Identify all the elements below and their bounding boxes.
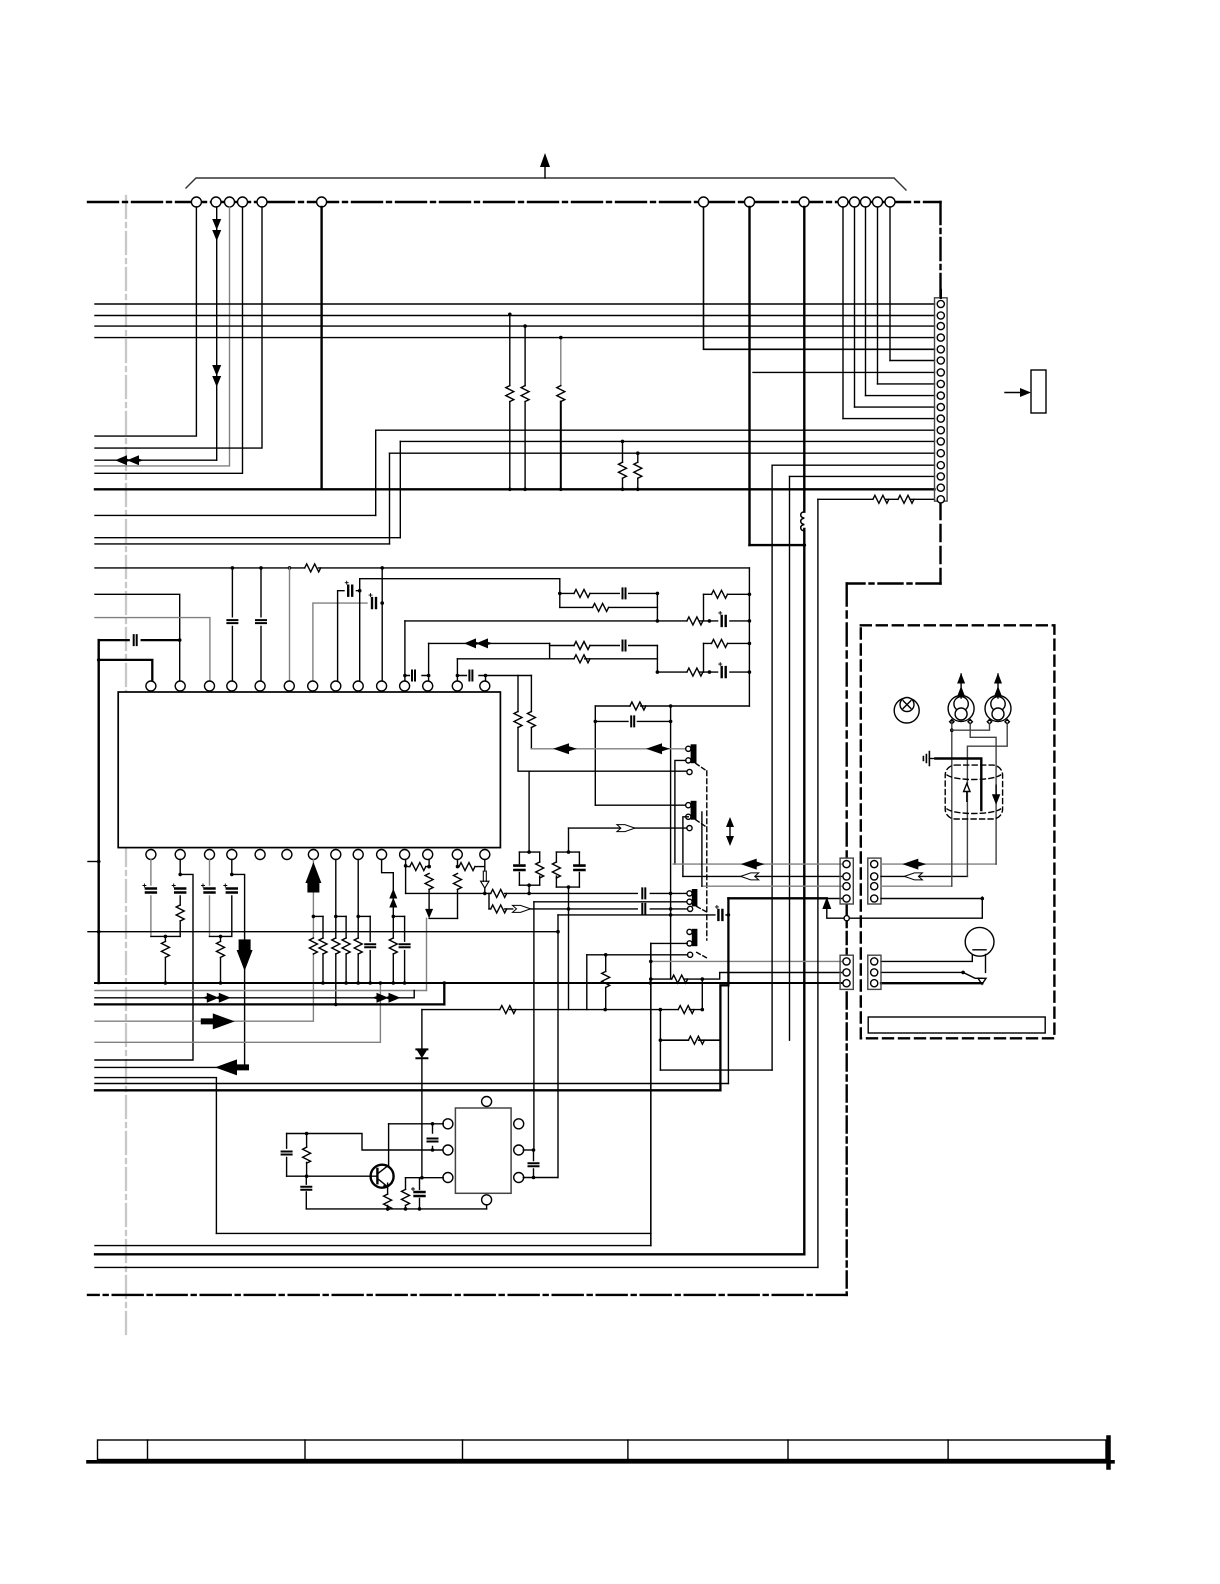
transformer dashed cylinder: [945, 765, 1002, 819]
RC row0 top line y=706 with resistor: [595, 705, 749, 707]
cap row1 top: [623, 588, 626, 598]
junction dot pin2 branch: [178, 873, 182, 877]
filled arrow 2 on 748.8: [646, 743, 670, 754]
filled arrow 1 on 748.8: [553, 743, 577, 754]
wire left-arrow line y=460: [95, 459, 217, 461]
cap row2 top: [623, 641, 626, 651]
U2 top pin: [482, 1097, 492, 1107]
sw1 line with two filled arrows y=748.8: [531, 748, 686, 750]
thick line y=1254.3: [95, 1253, 804, 1255]
riser x=560.8 from bus line4 with resistor: [560, 338, 562, 386]
big chevron arrow left on y=1067.4: [215, 1059, 249, 1075]
RC row2 top line with R and C: [550, 645, 658, 647]
vertical x=702.3: [701, 979, 703, 1010]
pin10 resistor: [392, 916, 394, 983]
parallel cap x=370.2: [369, 916, 371, 983]
resistor row2 top: [574, 642, 590, 650]
dots on 675.5 line: [403, 674, 407, 678]
U2 pin1 wire with corner to collector riser: [389, 1123, 444, 1125]
cap C5t above pin5: [260, 568, 262, 681]
conn B pin4 line: [881, 898, 982, 900]
node circle T6: [317, 197, 327, 207]
wire to connector pin13: [400, 440, 934, 442]
wire y=908.9 with resistor + hollow arrow + cap to sw3 movable: [489, 908, 687, 910]
row1 output line y=620.9: [405, 620, 750, 622]
long vertical x=558 to small IC: [557, 915, 559, 1178]
wire T6 thick down-left: [320, 207, 322, 489]
electrolytic below pin3: [202, 884, 215, 893]
wire pin3 top y=617.6 (gray): [95, 618, 210, 681]
pin14 wire with hollow down arrow: [484, 860, 486, 894]
cap on y=908.9: [642, 904, 645, 914]
hollow arrow on 876.4: [741, 873, 759, 880]
join line y=916.4 pin8: [336, 915, 346, 917]
sw2 line y=805.2: [595, 804, 686, 806]
node circle T7: [699, 197, 709, 207]
dots on x=650.8: [649, 960, 653, 964]
polarized cap on y=672.1: [719, 663, 726, 678]
junction dot bus/thick vertical: [803, 488, 807, 492]
resistor R-b on pin18 wire: [898, 495, 914, 503]
dash-dot below connector: [939, 503, 941, 584]
sw4 movable wire y=954.8: [587, 954, 688, 956]
sw3 contact2 line y=901.8: [534, 901, 687, 903]
resistor on y=979.1: [672, 975, 688, 983]
sw1 movable line y=771.2: [530, 770, 688, 772]
arrow up from bracket: [540, 153, 550, 178]
line y=997.8 with double chevron arrows right: [95, 991, 414, 998]
line y=1070.1: [660, 1069, 772, 1071]
wire to connector pin8: [878, 383, 935, 385]
resistor 2 on y=1009.6: [678, 1006, 694, 1014]
big right arrow on y=1021.2: [201, 1013, 235, 1029]
long vertical x=670.6: [670, 706, 672, 978]
connector CN-C (3pin): [840, 955, 853, 989]
wire y=537.7 left to stub V400: [95, 537, 400, 539]
join line pins1-2 y=936.4: [151, 935, 180, 937]
motor1 t2 wire: [970, 724, 996, 864]
resistor vertical x=531.4: [530, 676, 532, 749]
riser x=605.7 with resistor: [605, 955, 607, 1010]
thick line y=1090.3 to x=720.4: [95, 1089, 720, 1091]
bottom bus of small circuit y=1208.9: [306, 1208, 486, 1210]
jog to small triangle: [963, 972, 982, 978]
conn A pin4 stub: [827, 898, 842, 900]
pin9 chain: [357, 860, 359, 917]
junction dot pin14: [483, 892, 487, 896]
wire to connector pin12: [376, 429, 935, 431]
cap below right pin2: [533, 1150, 535, 1178]
lamp symbol: [894, 698, 919, 724]
resistor wire y=979.1 jog to connector C pin2: [651, 973, 842, 980]
node circle T4: [238, 197, 248, 207]
junction dot: [701, 977, 705, 981]
junction dots row1: [558, 592, 562, 596]
cap between pin1/pin2 lines: [432, 1124, 434, 1150]
wire y=515.4 left to stub V375: [95, 514, 376, 516]
pin8 resistor continuing to thick bus: [335, 916, 337, 1004]
battery right wire: [985, 955, 987, 973]
wire T9 thick down with coil: [803, 207, 805, 1254]
junction dots row0: [669, 704, 673, 708]
pin11 bottom wire down to line: [405, 860, 407, 894]
small IC U2: [455, 1108, 511, 1193]
long vertical x=789.5: [789, 476, 791, 1040]
node circle T5: [257, 197, 267, 207]
pin13 riser to row2 mid line: [456, 659, 458, 681]
wire to connector pin16 from long vertical: [790, 475, 935, 477]
vertical x=750.3 down from 567.9: [748, 568, 750, 706]
wire T7 down to pin5 line: [704, 207, 935, 349]
big down arrow on pin4 branch: [237, 950, 253, 971]
pin3 chain: [209, 860, 211, 937]
conn D pin2 line: [881, 971, 963, 973]
cap line pins11-12 y=675.5: [405, 675, 429, 677]
riser for pin3 line: [701, 812, 703, 886]
resistor below pin2: [176, 905, 184, 921]
up arrowhead at 826.8: [822, 897, 831, 909]
fold line (board boundary, light gray dash-dot): [125, 196, 127, 1338]
filled arrow on 864.1: [741, 859, 765, 870]
bus line 3 to connector pin3: [95, 325, 935, 327]
resistor row1 top: [574, 589, 590, 597]
U2 right pin2 wire to cap chain: [523, 1149, 533, 1151]
wire pin7 top: line y=603.1: [313, 603, 382, 681]
dot at 982.3,898.5: [981, 897, 985, 901]
wire pin2 vertical to pin: [179, 640, 181, 681]
down arrowhead at join: [425, 909, 433, 919]
node circle T10: [838, 197, 848, 207]
row2 output line y=672.1: [657, 671, 749, 673]
junction dots y=672.1: [656, 670, 660, 674]
sw gang dashed link: [706, 771, 708, 940]
node circle T12: [861, 197, 871, 207]
diode D1: [416, 1049, 427, 1058]
junction dot pin7: [312, 915, 316, 919]
resistor below join line: [164, 936, 166, 983]
conn A pin2 line with hollow arrow: [683, 875, 842, 877]
wire T14 down to pin6 line: [889, 207, 891, 361]
pin14 vertical: [485, 676, 487, 682]
U2 bottom pin: [482, 1195, 492, 1205]
pin4 chain: [231, 860, 233, 937]
motor terminals: [950, 720, 1010, 724]
riser x=586.8 down to line 1009.6: [586, 955, 588, 1010]
U2 pin2 wire with step: [287, 1134, 443, 1151]
sw2 contact2 riser x=682.9: [675, 760, 686, 864]
sw2 movable line y=828.1 with hollow arrow: [569, 827, 689, 829]
junction dot pin10 riser: [380, 601, 384, 605]
resistor row1 bottom: [593, 603, 609, 611]
ground symbol: [923, 752, 935, 766]
join line pins3-4: [210, 935, 232, 937]
pin4 branch wire to x=244.6 with big down arrow: [95, 874, 245, 1067]
resistor on y=893.4: [491, 889, 507, 897]
resistor below pin13: [454, 874, 462, 890]
bus line 1 to connector pin1: [95, 303, 935, 305]
RC row1 top line with R and C: [560, 592, 658, 594]
switch SW1: [686, 745, 707, 775]
resistor row0: [630, 702, 646, 710]
label box inside dashed box: [868, 1017, 1045, 1033]
ground bus y=983 across page to connector C: [95, 982, 842, 984]
long vertical x=772.1: [771, 465, 773, 1070]
emitter wire with resistor: [387, 1183, 389, 1209]
small double up arrows on pin10 step: [389, 889, 397, 908]
tank circuit LC2 (R parallel C): [552, 828, 584, 909]
chevron arrows right on y=997.8 (pair 2): [384, 993, 401, 1003]
hollow down arrow on pin14 wire: [481, 871, 489, 888]
resistor row2 bottom: [574, 655, 590, 663]
cap row0: [631, 716, 634, 726]
parallel resistor x=323: [322, 916, 324, 983]
junction dot: [164, 935, 168, 939]
dash-dot jog to x=846.7: [847, 582, 941, 584]
RC row1 bottom line with R: [560, 606, 658, 608]
battery circle: [965, 927, 994, 956]
node circle T14: [885, 197, 895, 207]
feedback resistor row1: [704, 593, 750, 595]
thick wire pin1 top y=659.9: [99, 660, 153, 681]
electrolytic below pin4: [224, 884, 237, 893]
small box right edge long vertical: [650, 943, 652, 1245]
resistor vertical x=518: [518, 676, 530, 772]
pin1 bottom electrolytic chain: [150, 860, 152, 937]
parallel cap x=404.6: [404, 916, 406, 983]
stub vertical x=400.3: [399, 441, 401, 537]
join line y=916.4 pin7: [313, 915, 323, 917]
line y=1267.4: [95, 1266, 818, 1268]
cap C-in on y=640.1: [134, 635, 137, 645]
hollow arrow right on y=908.9: [513, 905, 531, 912]
bus line 4 to connector pin4: [95, 337, 935, 339]
wire T4 down-left: [95, 207, 243, 473]
pin9 resistor: [357, 916, 359, 983]
join line y=916.4 pin9: [358, 915, 370, 917]
junction dot pin8 riser on 1004.4: [334, 1003, 338, 1007]
riser x=622.5 from pin13 line with resistor: [622, 441, 624, 489]
junction dot 749.4,643.4: [748, 642, 752, 646]
polarized cap on y=620.9: [719, 611, 726, 626]
motor M1 symbol: [948, 673, 974, 722]
chevron arrows right on y=997.8 (pair 1): [214, 993, 231, 1003]
bus thick line into connector pin17: [95, 488, 935, 490]
RC row2 left vertical: [549, 643, 551, 658]
line y=1083.5 to x=728.4: [95, 1083, 728, 1085]
U2 pin3 wire: [406, 1177, 444, 1179]
resistor below pin3 wire: [405, 1178, 407, 1209]
join line y=916.4 pin10: [393, 915, 404, 917]
resistor R-a on pin18 wire: [873, 495, 889, 503]
row2 input line y=643.4 with chevron arrow: [429, 642, 550, 644]
diode vertical x=421.9: [421, 1010, 423, 1178]
node circle T8: [745, 197, 755, 207]
node circle T13: [873, 197, 883, 207]
thick line y=1004.4: [95, 1003, 444, 1005]
parallel resistor x=346.1: [345, 916, 347, 983]
resistor on pin7 wire: [309, 938, 317, 954]
sw2 contact2 riser: [683, 817, 688, 877]
pin10 step wire with small up arrow: [382, 860, 394, 917]
resistor below pin12: [425, 874, 433, 890]
connector CN-A (4pin): [840, 858, 853, 904]
resistor 1 on y=1009.6: [500, 1006, 516, 1014]
bus line 2 to connector pin2: [95, 315, 935, 317]
pin11 vertical: [404, 621, 406, 681]
wire cap to pin2 vertical: [100, 639, 180, 641]
small circuit box bottom: [216, 1232, 651, 1234]
wire T8 thick down: [748, 207, 750, 545]
module rect with arrow (right side): [1005, 370, 1046, 413]
hollow arrow right of conn B: [904, 873, 922, 880]
conn A pin1 gray line with filled left arrow: [673, 863, 842, 865]
wire T10 down to pin11 line: [842, 207, 844, 419]
stub y=861.5: [88, 861, 99, 863]
conn D pin3 thick line: [881, 982, 982, 984]
stub vertical x=389.5: [389, 453, 391, 544]
wire T13 down to pin8 line: [877, 207, 879, 384]
wire y=545.1 between thick verticals: [750, 544, 805, 546]
resistor between pins 11-12: [406, 866, 429, 868]
line y=1009.6 with resistors: [422, 1009, 702, 1011]
wire y=893.4 with resistor to sw3 contact1: [406, 892, 688, 894]
wire to connector pin18 with two resistors: [818, 498, 935, 500]
thick riser x=444.3: [443, 983, 445, 1004]
wire to connector pin15 from long vertical: [773, 464, 935, 466]
pin7 long vertical with big up arrow: [95, 860, 313, 1022]
conn B pin2 line with hollow arrow: [881, 875, 967, 877]
resistor on y=672.1: [687, 668, 703, 676]
gray wire y=961.4 to connector C: [651, 960, 842, 962]
pin2 bottom chain: [179, 860, 181, 937]
resistor on y=908.9: [491, 905, 507, 913]
top shield bracket: [186, 178, 906, 190]
connector CN-D (3pin): [868, 955, 881, 989]
riser x=426.5 down to gray line 990.5: [426, 918, 428, 990]
wire T11 down to pin10 line: [854, 207, 856, 407]
conn A pin3 gray line: [702, 885, 842, 887]
wire to connector pin7 from left: [753, 371, 935, 373]
vertical x=595.3 row0 to sw2: [594, 706, 596, 805]
wire pin6 vertical: [289, 568, 291, 681]
riser x=525.1 from bus line3 with resistor: [524, 326, 526, 489]
conn B pin3 gray line: [881, 885, 952, 887]
motor M2 symbol: [985, 673, 1011, 722]
RC row0 cap line y=721.4: [595, 720, 670, 722]
dash-dot boundary right vertical: [846, 584, 848, 858]
resistor on y=620.9: [687, 617, 703, 625]
conn B pin1 line with filled left arrow to motor wire: [881, 863, 996, 865]
dash-dot boundary bottom: [88, 1294, 847, 1296]
left branch resistor: [306, 1134, 308, 1177]
left thick vertical x=98.7: [97, 640, 99, 983]
arrow down double on T2 wire (upper): [212, 219, 221, 241]
junction dot at 179.7,640.1: [178, 638, 182, 642]
filled arrow right of conn B: [902, 859, 926, 870]
dash-dot boundary top: [88, 201, 941, 203]
sw4 contact2 wire from vertical x=650.8: [651, 942, 688, 944]
wire to connector pin10: [855, 406, 935, 408]
vertical x=650.8 sw4 to bottom: [650, 943, 652, 1245]
node circle T1: [191, 197, 201, 207]
pin13 chain: [457, 860, 459, 919]
polarized cap on pin7 line: [369, 594, 376, 609]
line y=1245.6: [95, 1245, 651, 1247]
cap below base wire: [305, 1176, 307, 1209]
line y=1040.2 with resistor thick to x=720.5: [660, 1039, 720, 1041]
big up arrow on pin7 wire: [305, 862, 321, 883]
transistor Q1: [371, 1165, 394, 1188]
wire to connector pin14: [390, 452, 935, 454]
U2 bottom pin stub: [486, 1205, 488, 1209]
RC row1 right vertical: [656, 593, 658, 621]
polarized cap on y=914.9: [715, 905, 722, 920]
dash-dot boundary right upper: [939, 202, 941, 296]
chevron arrow left on y=643.4: [464, 638, 481, 648]
resistor between pins 13-14: [458, 866, 485, 868]
cap on y=893.4: [642, 888, 645, 898]
tank2 bottom vertical: [568, 909, 570, 1010]
U2 left pins: [443, 1119, 453, 1129]
wire pin2 top y=594.3: [95, 594, 180, 640]
wire y=730.2 to motor2 t1: [952, 724, 990, 730]
wire to connector pin6: [890, 360, 935, 362]
U2 right pins: [514, 1119, 524, 1129]
gray riser x=380.4 from bus to 1042.3 line: [95, 983, 380, 1042]
line y=1077.6 to small box left edge: [95, 1078, 216, 1234]
open circle on dash boundary crossing: [844, 916, 849, 921]
connector CN-B (4pin): [868, 858, 881, 904]
resistor R on y=567.9: [305, 564, 321, 572]
electrolytic below pin2: [172, 884, 185, 893]
electrolytic cap below pin1: [143, 884, 156, 893]
junction dot at 98.7,659.9: [97, 658, 101, 662]
motor2 t2 wire: [967, 724, 1007, 877]
thin riser x=728.4 to line 1083.5: [727, 985, 729, 1083]
wire to connector pin11: [843, 418, 935, 420]
hollow arrow right on 828.1: [617, 825, 635, 832]
node circle T9: [799, 197, 809, 207]
dots on ground bus: [164, 981, 168, 985]
pin8 chain: [335, 860, 337, 917]
pin10 riser up to net 568: [381, 568, 383, 681]
tie between R lines: [488, 893, 490, 909]
dots on second 675.5 line: [456, 674, 460, 678]
net line y=567.9 with resistor: [95, 567, 749, 569]
vertical feedback row2: [703, 643, 705, 672]
riser x=509.8 from bus line1 with resistor: [509, 314, 511, 489]
wire pin9 riser and line y=578.7: [360, 579, 560, 681]
node circle T3: [225, 197, 235, 207]
capline y=914.9 from x=558: [558, 914, 728, 916]
hollow up arrow inside transformer: [964, 784, 970, 803]
cap C-11-12: [412, 671, 415, 681]
switch SW4: [687, 929, 707, 958]
switch SW3: [687, 890, 707, 912]
filled down arrow inside transformer: [993, 785, 999, 804]
wire T2 down-left: [216, 207, 218, 460]
big dashed box: [861, 625, 1055, 1038]
motor1 t1 wire down and join: [951, 722, 953, 887]
wire T1 down-left: [95, 207, 196, 436]
left branch cap: [286, 1134, 288, 1177]
U2 right pin3 wire: [523, 1177, 558, 1179]
tank circuit LC1 (C parallel R): [514, 771, 543, 893]
RC row2 right vertical: [656, 646, 658, 673]
thick wire y=898.3 to conn A pin4 riser: [728, 897, 826, 899]
pin12 chain: [428, 860, 430, 913]
join line y=918.4: [429, 917, 457, 919]
